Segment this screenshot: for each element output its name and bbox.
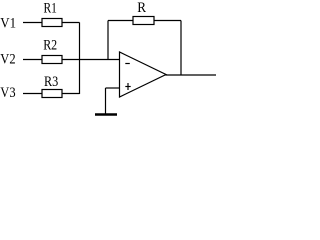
- svg-text:R2: R2: [43, 37, 57, 53]
- wire feedback top left: [108, 20, 133, 22]
- resistor R (feedback): [133, 17, 154, 25]
- wire V2 to R2: [23, 59, 42, 61]
- ground: [95, 113, 117, 116]
- resistor R3: [42, 90, 62, 98]
- wire R3 to summing bus: [62, 93, 80, 95]
- wire feedback left vertical (summing node up to R): [107, 21, 109, 60]
- wire output: [166, 74, 217, 76]
- svg-text:R3: R3: [44, 74, 58, 90]
- svg-text:R1: R1: [44, 1, 57, 17]
- wire V1 to R1: [23, 22, 42, 24]
- svg-text:R: R: [137, 0, 146, 16]
- op-amp non-inverting input plus sign: [125, 86, 130, 88]
- resistor R1: [42, 19, 62, 27]
- svg-text:V3: V3: [0, 85, 15, 101]
- op-amp inverting input minus sign: [125, 63, 130, 65]
- wire non-inverting input to ground: [106, 87, 120, 89]
- svg-text:V2: V2: [0, 51, 15, 67]
- op-amp U1: [120, 52, 167, 97]
- wire R1 to summing bus: [62, 22, 80, 24]
- resistor R2: [42, 56, 62, 64]
- summing bus vertical wire: [79, 23, 81, 95]
- wire feedback right vertical down to output: [180, 21, 182, 76]
- wire ground vertical: [105, 88, 107, 114]
- wire feedback top right: [154, 20, 181, 22]
- svg-text:V1: V1: [0, 15, 16, 31]
- wire V3 to R3: [23, 93, 42, 95]
- wire R2 to op-amp inverting input: [62, 59, 120, 61]
